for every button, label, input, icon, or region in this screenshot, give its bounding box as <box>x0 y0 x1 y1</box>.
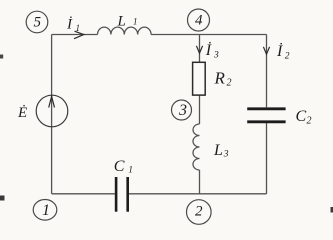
svg-text:R: R <box>214 69 226 88</box>
svg-text:2: 2 <box>285 52 290 62</box>
svg-text:1: 1 <box>133 17 138 27</box>
svg-text:3: 3 <box>223 150 229 160</box>
svg-text:5: 5 <box>34 15 42 31</box>
svg-text:2: 2 <box>195 204 203 220</box>
svg-text:C: C <box>114 158 125 175</box>
svg-text:1: 1 <box>76 23 81 33</box>
svg-text:L: L <box>117 14 126 30</box>
svg-text:2: 2 <box>227 78 232 89</box>
svg-text:L: L <box>213 142 223 159</box>
svg-text:İ: İ <box>276 42 283 60</box>
svg-text:İ: İ <box>66 17 73 33</box>
svg-text:2: 2 <box>307 116 312 127</box>
svg-text:3: 3 <box>213 51 219 61</box>
svg-text:1: 1 <box>128 166 133 176</box>
svg-text:C: C <box>296 108 307 125</box>
svg-text:3: 3 <box>178 102 187 119</box>
svg-text:1: 1 <box>42 202 50 219</box>
svg-text:İ: İ <box>205 41 212 59</box>
svg-text:4: 4 <box>195 13 203 29</box>
svg-text:Ė: Ė <box>17 105 27 121</box>
